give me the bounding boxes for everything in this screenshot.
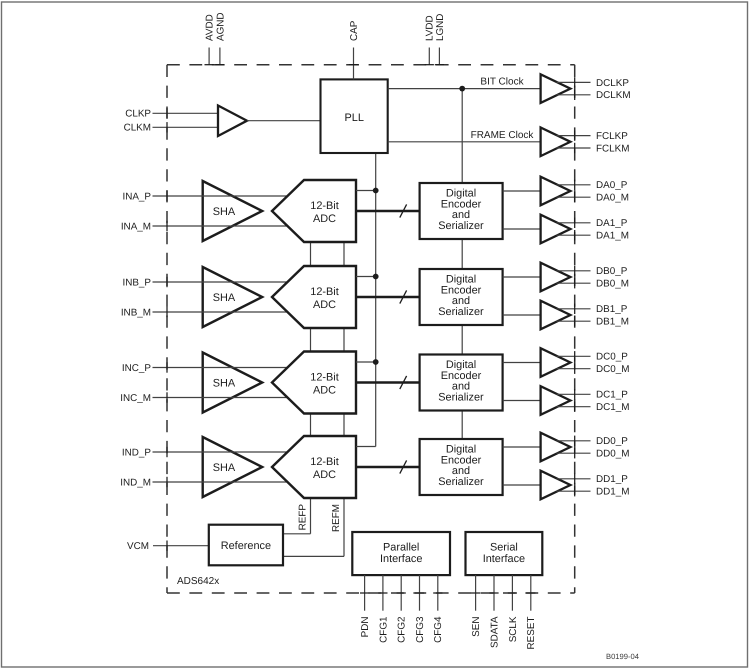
svg-text:DCLKP: DCLKP <box>596 78 629 89</box>
svg-text:DD1_M: DD1_M <box>596 487 629 498</box>
svg-text:Serializer: Serializer <box>438 306 484 318</box>
svg-text:DB0_M: DB0_M <box>596 279 629 290</box>
svg-text:INB_P: INB_P <box>122 277 151 288</box>
svg-text:FRAME Clock: FRAME Clock <box>471 130 535 141</box>
svg-text:INA_P: INA_P <box>122 191 151 202</box>
svg-text:SHA: SHA <box>213 292 236 304</box>
svg-text:CFG3: CFG3 <box>415 616 426 643</box>
svg-text:AVDD: AVDD <box>205 14 216 41</box>
svg-text:DC0_M: DC0_M <box>596 364 629 375</box>
svg-text:CFG4: CFG4 <box>433 616 444 643</box>
svg-text:DD0_M: DD0_M <box>596 449 629 460</box>
svg-text:ADS642x: ADS642x <box>177 576 219 587</box>
svg-text:DC1_P: DC1_P <box>596 390 628 401</box>
svg-text:ADC: ADC <box>313 469 336 481</box>
svg-text:Reference: Reference <box>221 540 271 552</box>
svg-text:DD1_P: DD1_P <box>596 474 628 485</box>
svg-text:INB_M: INB_M <box>121 307 151 318</box>
svg-text:VCM: VCM <box>127 541 149 552</box>
svg-text:12-Bit: 12-Bit <box>310 456 338 468</box>
svg-text:Serial: Serial <box>490 542 518 554</box>
svg-text:IND_P: IND_P <box>122 447 151 458</box>
svg-text:12-Bit: 12-Bit <box>310 371 338 383</box>
svg-text:INC_P: INC_P <box>122 363 151 374</box>
svg-text:DD0_P: DD0_P <box>596 436 628 447</box>
svg-text:Interface: Interface <box>380 553 422 565</box>
svg-text:DA0_M: DA0_M <box>596 193 629 204</box>
svg-text:SHA: SHA <box>213 377 236 389</box>
svg-text:DC0_P: DC0_P <box>596 352 628 363</box>
svg-text:REFP: REFP <box>298 504 309 531</box>
svg-text:12-Bit: 12-Bit <box>310 200 338 212</box>
svg-text:CFG1: CFG1 <box>378 616 389 643</box>
svg-text:SHA: SHA <box>213 206 236 218</box>
svg-text:B0199-04: B0199-04 <box>606 652 639 661</box>
svg-text:AGND: AGND <box>215 12 226 41</box>
svg-text:DA1_P: DA1_P <box>596 218 628 229</box>
svg-text:CLKM: CLKM <box>124 123 151 134</box>
svg-text:Serializer: Serializer <box>438 476 484 488</box>
svg-text:INA_M: INA_M <box>121 221 151 232</box>
svg-text:LGND: LGND <box>435 14 446 41</box>
svg-text:DB1_P: DB1_P <box>596 304 628 315</box>
svg-text:Serializer: Serializer <box>438 220 484 232</box>
svg-text:CLKP: CLKP <box>125 109 151 120</box>
svg-text:Interface: Interface <box>483 553 525 565</box>
svg-text:SEN: SEN <box>471 617 482 637</box>
svg-text:DB0_P: DB0_P <box>596 266 628 277</box>
svg-text:SCLK: SCLK <box>508 616 519 642</box>
svg-text:FCLKP: FCLKP <box>596 131 628 142</box>
svg-text:ADC: ADC <box>313 213 336 225</box>
svg-text:RESET: RESET <box>526 617 537 650</box>
svg-text:REFM: REFM <box>331 504 342 532</box>
svg-text:PDN: PDN <box>360 617 371 638</box>
svg-text:INC_M: INC_M <box>120 393 151 404</box>
svg-text:FCLKM: FCLKM <box>596 143 629 154</box>
svg-text:DC1_M: DC1_M <box>596 402 629 413</box>
svg-text:PLL: PLL <box>345 112 364 124</box>
svg-text:Parallel: Parallel <box>383 542 419 554</box>
svg-text:SHA: SHA <box>213 462 236 474</box>
svg-text:DCLKM: DCLKM <box>596 90 631 101</box>
svg-text:IND_M: IND_M <box>120 477 151 488</box>
svg-text:ADC: ADC <box>313 384 336 396</box>
svg-text:BIT Clock: BIT Clock <box>480 77 524 88</box>
svg-text:CFG2: CFG2 <box>397 617 408 643</box>
svg-text:SDATA: SDATA <box>489 616 500 648</box>
svg-text:DA0_P: DA0_P <box>596 180 628 191</box>
svg-text:Serializer: Serializer <box>438 391 484 403</box>
svg-text:12-Bit: 12-Bit <box>310 286 338 298</box>
svg-text:DA1_M: DA1_M <box>596 231 629 242</box>
svg-text:DB1_M: DB1_M <box>596 317 629 328</box>
svg-text:ADC: ADC <box>313 299 336 311</box>
svg-text:CAP: CAP <box>349 20 360 41</box>
